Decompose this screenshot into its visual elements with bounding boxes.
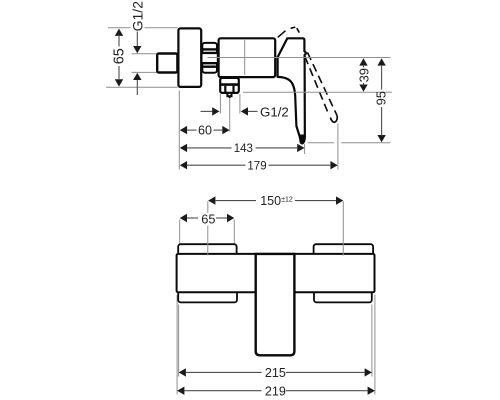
outlet block [220,78,239,93]
hex union nut separator 2 [202,52,218,54]
svg-text:215: 215 [265,366,286,380]
handle lever (solid) [278,38,307,143]
extension line escutcheon bottom [106,86,178,88]
extension line 65 right [233,220,235,244]
hex union nut outer [202,43,217,73]
extension line 65 left [179,220,181,244]
hex union nut middle facet [202,53,218,63]
G1/2 leader line down [136,32,138,48]
extension line 219 left [176,295,178,395]
extension line 39 bottom [243,91,392,93]
extension line 95 bottom [308,142,335,144]
svg-text:60: 60 [198,123,212,137]
escutcheon (side view) [178,28,201,87]
dimension 219 [177,387,184,395]
outlet hex facet right [232,86,234,92]
svg-text:39: 39 [356,68,371,82]
svg-text:65: 65 [112,48,128,64]
extension line left vertical [178,91,180,170]
escutcheon centerline right [342,201,344,255]
hex union nut separator 3 [202,62,218,64]
extension line outlet left [219,94,221,114]
extension line handle tip [304,144,306,154]
svg-text:179: 179 [247,160,266,172]
escutcheon top tab left [178,244,236,256]
escutcheon bottom tab right [314,291,372,303]
svg-text:65: 65 [201,211,215,226]
wall inlet square [157,54,177,73]
handle (front view) [256,254,295,355]
dimension 65 (escutcheon width) [180,214,187,222]
extension line dashed-handle tip [337,124,339,170]
mixer body (front view) [177,254,375,292]
dimension G1/2 outlet [201,110,213,112]
svg-text:G1/2: G1/2 [260,105,289,120]
handle pivot notch [305,51,308,56]
dimension 150±12 [208,196,215,204]
dashed handle lever line A [305,57,329,115]
svg-text:219: 219 [265,384,286,398]
body vertical centerline [244,40,246,75]
outlet centerline [229,97,231,132]
svg-text:150: 150 [260,194,281,208]
handle lever tip fill [300,135,305,144]
dimension 95 [377,58,385,65]
dashed handle lever line B [308,53,338,116]
outlet nub dot [229,96,231,98]
svg-text:95: 95 [374,91,389,105]
dimension 179 [180,161,187,169]
dimension 215 [179,368,186,376]
extension line 215 left [178,305,180,377]
axis centerline horizontal [208,57,391,59]
extension line inlet top [132,53,158,55]
escutcheon centerline left [207,201,209,213]
outlet hex facet left [224,86,226,92]
svg-text:143: 143 [234,143,253,155]
extension line escutcheon top [108,27,131,29]
extension line inlet bottom [132,71,158,73]
G1/2 leader line up [136,80,138,96]
dimension 143 [180,144,187,152]
dashed handle tip arc [330,116,337,122]
hex union nut separator 1 [202,48,218,50]
dimension 39 [359,58,367,65]
extension line 219 right [374,295,376,395]
mixer body (side view) [219,38,276,77]
outlet nub [227,93,231,96]
outlet groove line [221,83,238,86]
dimension 65 (escutcheon height) [115,29,123,36]
svg-text:±12: ±12 [281,197,293,204]
hex union nut separator 4 [202,65,218,67]
escutcheon bottom tab left [178,291,237,303]
extension line 215 right [371,305,373,377]
escutcheon top tab right [314,244,374,256]
dashed handle outline top [278,31,286,38]
svg-text:G1/2: G1/2 [129,1,145,32]
dimension 60 [180,126,187,134]
extension line outlet right [239,94,241,114]
